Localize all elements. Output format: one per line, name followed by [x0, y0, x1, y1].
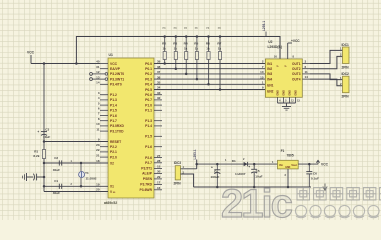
svg-text:7805: 7805 [287, 153, 294, 157]
svg-text:+: + [248, 165, 250, 169]
svg-text:P0.5: P0.5 [145, 88, 152, 92]
svg-text:12: 12 [96, 70, 100, 74]
svg-text:37: 37 [157, 70, 161, 74]
svg-text:2PIN: 2PIN [342, 95, 350, 99]
svg-text:30: 30 [157, 170, 161, 174]
svg-text:U2: U2 [268, 40, 272, 44]
svg-text:Vout: Vout [291, 163, 297, 167]
svg-text:21: 21 [96, 153, 100, 157]
svg-text:1k: 1k [195, 46, 199, 50]
svg-text:+: + [37, 130, 39, 134]
svg-text:36: 36 [157, 75, 161, 79]
svg-text:15: 15 [157, 165, 161, 169]
svg-text:OUT4: OUT4 [292, 77, 301, 81]
svg-text:11: 11 [305, 70, 309, 74]
svg-text:X1: X1 [110, 185, 114, 189]
svg-text:P0.3: P0.3 [145, 77, 152, 81]
svg-text:22: 22 [96, 148, 100, 152]
svg-text:1k: 1k [206, 46, 210, 50]
svg-text:P2.6: P2.6 [145, 156, 152, 160]
svg-text:R7: R7 [217, 42, 221, 46]
svg-text:OUT3: OUT3 [292, 72, 301, 76]
svg-text:17: 17 [157, 181, 161, 185]
svg-text:P3.3INT1: P3.3INT1 [110, 77, 124, 81]
svg-text:1k: 1k [163, 46, 167, 50]
svg-text:+: + [211, 165, 213, 169]
svg-text:11.0592: 11.0592 [86, 177, 97, 181]
svg-text:P0.6: P0.6 [145, 93, 152, 97]
svg-text:P0.1: P0.1 [145, 67, 152, 71]
svg-text:P1.4: P1.4 [145, 124, 152, 128]
svg-text:34: 34 [157, 86, 161, 90]
svg-text:+VCC: +VCC [291, 39, 300, 43]
svg-text:10uF: 10uF [43, 135, 50, 139]
svg-text:P3.4/T0: P3.4/T0 [110, 83, 122, 87]
svg-text:P3.5T1: P3.5T1 [141, 167, 152, 171]
svg-text:P1.5: P1.5 [110, 109, 117, 113]
svg-text:39: 39 [157, 60, 161, 64]
svg-text:30uF: 30uF [53, 168, 60, 172]
svg-text:P0.2: P0.2 [145, 72, 152, 76]
svg-text:10: 10 [96, 122, 100, 126]
svg-text:29: 29 [157, 175, 161, 179]
svg-text:D1: D1 [232, 159, 236, 163]
svg-text:23: 23 [96, 143, 100, 147]
svg-text:P1.6: P1.6 [145, 145, 152, 149]
svg-text:EN2: EN2 [267, 89, 273, 93]
svg-text:at89c52: at89c52 [104, 201, 117, 205]
svg-text:11: 11 [96, 127, 100, 131]
svg-text:IN4: IN4 [267, 77, 272, 81]
svg-text:15: 15 [260, 75, 264, 79]
svg-text:1n4007: 1n4007 [235, 172, 246, 176]
svg-text:C1: C1 [54, 179, 58, 183]
svg-text:GND: GND [276, 90, 280, 96]
svg-text:C4: C4 [214, 169, 218, 173]
svg-text:GND: GND [294, 90, 298, 96]
svg-text:R3: R3 [173, 42, 177, 46]
svg-text:8.2k: 8.2k [33, 154, 39, 158]
svg-text:P2.0: P2.0 [110, 155, 117, 159]
svg-text:OUT1: OUT1 [292, 62, 301, 66]
svg-text:IDC1: IDC1 [342, 43, 349, 47]
svg-text:GND: GND [285, 167, 290, 169]
svg-text:R4: R4 [184, 42, 188, 46]
svg-text:P1.0: P1.0 [145, 103, 152, 107]
svg-text:P2.2: P2.2 [110, 145, 117, 149]
svg-text:R5: R5 [194, 42, 198, 46]
svg-text:21ic: 21ic [221, 182, 293, 220]
svg-text:1k: 1k [184, 46, 188, 50]
svg-text:P1.7: P1.7 [110, 119, 117, 123]
svg-text:IN3: IN3 [267, 72, 272, 76]
svg-text:C5: C5 [256, 169, 260, 173]
svg-text:P1.3: P1.3 [110, 98, 117, 102]
svg-text:13: 13 [96, 75, 100, 79]
svg-text:35: 35 [157, 81, 161, 85]
svg-text:P1.4: P1.4 [110, 103, 117, 107]
svg-text:ALE/P: ALE/P [142, 172, 153, 176]
svg-text:P1.2: P1.2 [110, 93, 117, 97]
svg-text:33: 33 [157, 91, 161, 95]
svg-text:P1.1: P1.1 [145, 109, 152, 113]
svg-text:2PIN: 2PIN [174, 182, 182, 186]
svg-text:L293D(B): L293D(B) [268, 45, 282, 49]
svg-text:R1: R1 [34, 149, 38, 153]
svg-text:16: 16 [157, 186, 161, 190]
svg-text:P0.7: P0.7 [145, 98, 152, 102]
svg-text:31: 31 [96, 65, 100, 69]
svg-text:IDC2: IDC2 [342, 72, 349, 76]
svg-text:IDC3: IDC3 [174, 161, 181, 165]
svg-text:PSEN: PSEN [143, 177, 153, 181]
svg-text:OUT2: OUT2 [292, 67, 301, 71]
svg-text:P2.1: P2.1 [110, 150, 117, 154]
svg-text:R2: R2 [162, 42, 166, 46]
svg-text:28: 28 [157, 159, 161, 163]
svg-text:P3.0RXD: P3.0RXD [110, 124, 125, 128]
svg-text:C2: C2 [54, 156, 58, 160]
svg-text:C6: C6 [313, 171, 317, 175]
svg-text:VCC: VCC [27, 51, 35, 55]
svg-text:14: 14 [96, 81, 100, 85]
svg-text:38: 38 [157, 65, 161, 69]
svg-text:IN1: IN1 [267, 62, 272, 66]
svg-text:VCC: VCC [110, 62, 118, 66]
svg-text:R6: R6 [206, 42, 210, 46]
svg-text:100uF: 100uF [211, 175, 220, 179]
svg-text:1k: 1k [218, 46, 222, 50]
svg-text:P0.4: P0.4 [145, 83, 152, 87]
svg-text:L293-1: L293-1 [262, 21, 266, 31]
svg-text:10uF: 10uF [255, 174, 262, 178]
svg-text:P3.6WR: P3.6WR [140, 188, 153, 192]
svg-text:X2: X2 [110, 161, 114, 165]
svg-text:P3.7RD: P3.7RD [140, 183, 152, 187]
svg-text:27: 27 [157, 154, 161, 158]
svg-text:P2.7: P2.7 [145, 161, 152, 165]
svg-text:IN2: IN2 [267, 67, 272, 71]
svg-text:GND: GND [288, 90, 292, 96]
svg-text:P3.2INT0: P3.2INT0 [110, 72, 124, 76]
svg-text:EA/VP: EA/VP [110, 67, 121, 71]
svg-text:P1.3: P1.3 [145, 119, 152, 123]
svg-text:P1.6: P1.6 [110, 114, 117, 118]
svg-text:VCC: VCC [321, 162, 329, 166]
svg-text:P3.1TXD: P3.1TXD [110, 129, 124, 133]
svg-text:2PIN: 2PIN [342, 66, 350, 70]
svg-text:Y1: Y1 [85, 171, 89, 175]
svg-text:GND: GND [282, 90, 286, 96]
svg-text:C3: C3 [45, 128, 49, 132]
svg-text:L293-1: L293-1 [193, 149, 197, 159]
svg-text:32: 32 [157, 96, 161, 100]
svg-text:1k: 1k [174, 46, 178, 50]
svg-text:14: 14 [305, 75, 309, 79]
svg-text:10: 10 [260, 70, 264, 74]
svg-text:U1: U1 [109, 53, 113, 57]
svg-text:F1: F1 [281, 149, 285, 153]
svg-text:0.1uF: 0.1uF [311, 176, 319, 180]
svg-text:P1.5: P1.5 [145, 135, 152, 139]
svg-text:P0.0: P0.0 [145, 62, 152, 66]
svg-text:RESET: RESET [110, 140, 121, 144]
svg-text:EN1: EN1 [267, 84, 273, 88]
svg-text:Vin: Vin [279, 163, 283, 167]
